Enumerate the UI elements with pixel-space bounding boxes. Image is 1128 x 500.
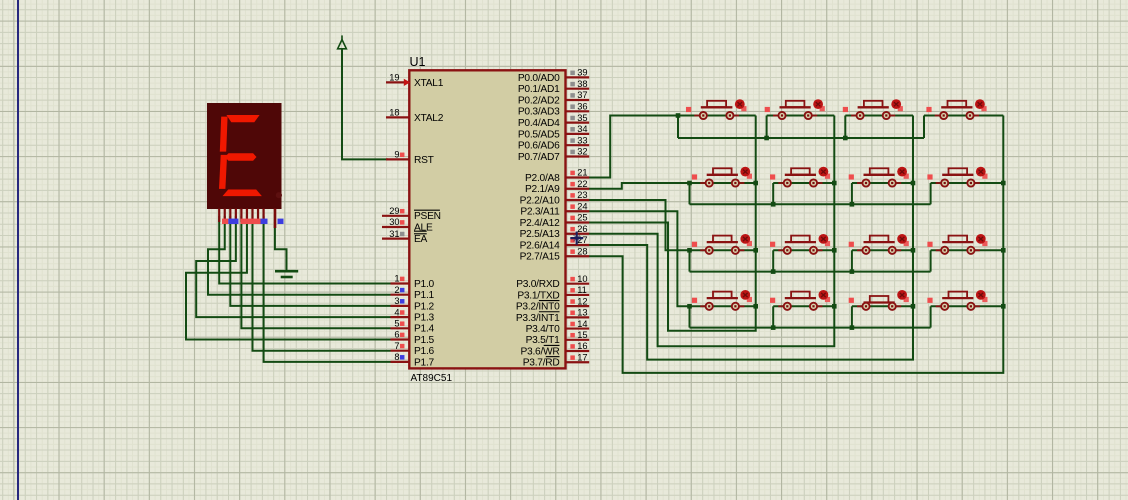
svg-text:8: 8 bbox=[394, 352, 399, 362]
svg-text:RST: RST bbox=[414, 155, 434, 166]
svg-text:9: 9 bbox=[394, 150, 399, 160]
svg-text:30: 30 bbox=[389, 217, 399, 227]
svg-text:P3.1/TXD: P3.1/TXD bbox=[517, 290, 559, 301]
svg-text:25: 25 bbox=[577, 213, 587, 223]
svg-text:37: 37 bbox=[577, 90, 587, 100]
svg-text:P0.6/AD6: P0.6/AD6 bbox=[518, 141, 560, 152]
svg-text:P0.5/AD5: P0.5/AD5 bbox=[518, 129, 560, 140]
svg-text:16: 16 bbox=[577, 341, 587, 351]
svg-text:19: 19 bbox=[389, 73, 399, 83]
svg-text:P2.7/A15: P2.7/A15 bbox=[520, 252, 560, 263]
svg-text:P0.7/AD7: P0.7/AD7 bbox=[518, 152, 560, 163]
svg-text:P1.0: P1.0 bbox=[414, 279, 435, 290]
svg-text:1: 1 bbox=[394, 274, 399, 284]
svg-text:PSEN: PSEN bbox=[414, 211, 441, 222]
svg-text:22: 22 bbox=[577, 179, 587, 189]
svg-text:XTAL1: XTAL1 bbox=[414, 78, 444, 89]
svg-text:35: 35 bbox=[577, 113, 587, 123]
svg-text:5: 5 bbox=[394, 319, 399, 329]
svg-text:P3.7/RD: P3.7/RD bbox=[523, 358, 560, 369]
svg-text:P2.1/A9: P2.1/A9 bbox=[525, 184, 560, 195]
svg-text:3: 3 bbox=[394, 296, 399, 306]
svg-text:P3.5/T1: P3.5/T1 bbox=[526, 335, 561, 346]
svg-text:P2.6/A14: P2.6/A14 bbox=[520, 240, 560, 251]
svg-text:AT89C51: AT89C51 bbox=[411, 373, 453, 384]
svg-text:29: 29 bbox=[389, 206, 399, 216]
svg-text:P0.1/AD1: P0.1/AD1 bbox=[518, 84, 560, 95]
svg-text:38: 38 bbox=[577, 79, 587, 89]
svg-text:P3.6/WR: P3.6/WR bbox=[520, 346, 559, 357]
svg-text:P0.0/AD0: P0.0/AD0 bbox=[518, 73, 560, 84]
svg-text:P1.2: P1.2 bbox=[414, 301, 435, 312]
svg-text:15: 15 bbox=[577, 330, 587, 340]
svg-text:P1.1: P1.1 bbox=[414, 290, 435, 301]
svg-text:P0.2/AD2: P0.2/AD2 bbox=[518, 95, 560, 106]
svg-text:P1.7: P1.7 bbox=[414, 357, 435, 368]
svg-text:P0.3/AD3: P0.3/AD3 bbox=[518, 107, 560, 118]
svg-text:P1.4: P1.4 bbox=[414, 324, 435, 335]
svg-text:2: 2 bbox=[394, 285, 399, 295]
svg-text:7: 7 bbox=[394, 341, 399, 351]
svg-text:XTAL2: XTAL2 bbox=[414, 113, 444, 124]
svg-text:36: 36 bbox=[577, 102, 587, 112]
svg-text:24: 24 bbox=[577, 201, 587, 211]
svg-text:11: 11 bbox=[577, 285, 587, 295]
svg-text:U1: U1 bbox=[410, 55, 426, 69]
svg-text:P0.4/AD4: P0.4/AD4 bbox=[518, 118, 560, 129]
svg-text:17: 17 bbox=[577, 352, 587, 362]
svg-text:P3.4/T0: P3.4/T0 bbox=[526, 324, 561, 335]
svg-text:4: 4 bbox=[394, 307, 399, 317]
svg-text:31: 31 bbox=[389, 229, 399, 239]
svg-text:P2.0/A8: P2.0/A8 bbox=[525, 173, 560, 184]
svg-text:32: 32 bbox=[577, 147, 587, 157]
svg-text:23: 23 bbox=[577, 190, 587, 200]
svg-text:26: 26 bbox=[577, 224, 587, 234]
svg-text:P3.3/INT1: P3.3/INT1 bbox=[516, 313, 560, 324]
svg-text:13: 13 bbox=[577, 308, 587, 318]
svg-text:6: 6 bbox=[394, 330, 399, 340]
svg-text:P1.3: P1.3 bbox=[414, 313, 435, 324]
svg-text:18: 18 bbox=[389, 108, 399, 118]
svg-text:P1.6: P1.6 bbox=[414, 346, 435, 357]
svg-text:P1.5: P1.5 bbox=[414, 335, 435, 346]
svg-text:21: 21 bbox=[577, 168, 587, 178]
svg-text:14: 14 bbox=[577, 319, 587, 329]
svg-text:33: 33 bbox=[577, 135, 587, 145]
svg-text:P2.5/A13: P2.5/A13 bbox=[520, 229, 560, 240]
svg-text:P2.2/A10: P2.2/A10 bbox=[520, 195, 560, 206]
svg-text:P3.2/INT0: P3.2/INT0 bbox=[516, 302, 560, 313]
svg-text:34: 34 bbox=[577, 124, 587, 134]
svg-text:39: 39 bbox=[577, 68, 587, 78]
svg-text:P3.0/RXD: P3.0/RXD bbox=[516, 279, 559, 290]
svg-text:12: 12 bbox=[577, 296, 587, 306]
svg-text:EA: EA bbox=[414, 234, 428, 245]
svg-text:10: 10 bbox=[577, 274, 587, 284]
svg-text:28: 28 bbox=[577, 246, 587, 256]
svg-text:P2.4/A12: P2.4/A12 bbox=[520, 218, 560, 229]
svg-text:P2.3/A11: P2.3/A11 bbox=[520, 207, 560, 218]
